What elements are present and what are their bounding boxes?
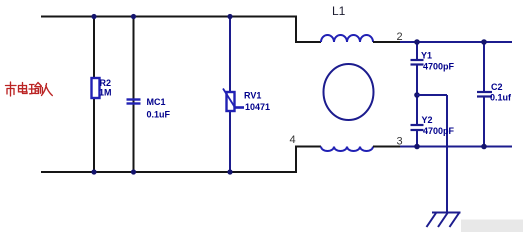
svg-text:C2: C2 (491, 82, 503, 92)
wire top-left rail (41, 16, 296, 18)
ground (427, 213, 461, 228)
capacitor Y1 (411, 60, 424, 65)
svg-text:Y2: Y2 (422, 115, 433, 125)
inductor L1 lower winding (321, 147, 373, 152)
watermark gray block (461, 220, 523, 233)
wire bottom-right rail black part (373, 146, 400, 148)
svg-text:0.1uf: 0.1uf (490, 93, 512, 103)
node junction dot bottom RV1 (227, 169, 232, 174)
svg-text:4: 4 (290, 134, 296, 146)
电 (19, 83, 28, 94)
svg-text:Y1: Y1 (421, 51, 432, 61)
node junction dot node 2 (414, 39, 420, 45)
node junction dot top RV1 (227, 14, 232, 19)
wire Y branch vertical lower (416, 130, 418, 147)
node junction dot top R2 (91, 14, 96, 19)
node junction dot Y mid (414, 92, 420, 98)
capacitor Y2 (411, 125, 424, 130)
node junction dot top MC1 (131, 14, 136, 19)
wire bottom-left rail (41, 171, 296, 173)
svg-text:1M: 1M (99, 88, 112, 98)
svg-text:L1: L1 (332, 4, 346, 18)
wire ground vertical (446, 95, 448, 212)
wire top step down (296, 16, 321, 43)
wire top-right rail (400, 41, 512, 43)
市 (6, 82, 17, 96)
wire C2 branch upper (483, 42, 485, 92)
capacitor MC1 (127, 100, 141, 104)
wire C2 branch lower (483, 97, 485, 147)
wire R2 branch vertical (93, 17, 95, 173)
svg-text:RV1: RV1 (244, 91, 261, 101)
node junction dot C2 bottom (481, 144, 487, 150)
wire RV1 branch vertical (229, 17, 231, 173)
svg-text:4700pF: 4700pF (423, 62, 455, 72)
wire Y branch vertical middle (416, 65, 418, 126)
wire ground jog horizontal (417, 94, 447, 96)
node junction dot bottom MC1 (131, 169, 136, 174)
入 (42, 84, 53, 96)
capacitor C2 (477, 92, 492, 97)
text 市电输入 (drawn strokes, mains input) (6, 82, 53, 96)
resistor R2 (92, 78, 100, 98)
svg-text:0.1uF: 0.1uF (147, 110, 171, 120)
wire bottom-right rail (400, 146, 512, 148)
svg-text:10471: 10471 (245, 102, 270, 112)
wire MC1 branch vertical (133, 17, 135, 173)
svg-text:R2: R2 (100, 78, 112, 88)
node junction dot bottom R2 (91, 169, 96, 174)
varistor RV1 (223, 89, 244, 112)
wire top-right rail black part (373, 41, 400, 43)
node junction dot node 3 (414, 144, 420, 150)
node junction dot C2 top (481, 39, 487, 45)
wire bottom step up (296, 147, 321, 174)
wire Y branch vertical upper (416, 42, 418, 60)
svg-text:MC1: MC1 (147, 97, 166, 107)
svg-text:2: 2 (397, 31, 403, 43)
inductor L1 core circle (324, 64, 374, 120)
输 (29, 83, 42, 94)
inductor L1 upper winding (321, 35, 373, 42)
svg-text:4700pF: 4700pF (423, 126, 455, 136)
svg-text:3: 3 (397, 136, 403, 148)
